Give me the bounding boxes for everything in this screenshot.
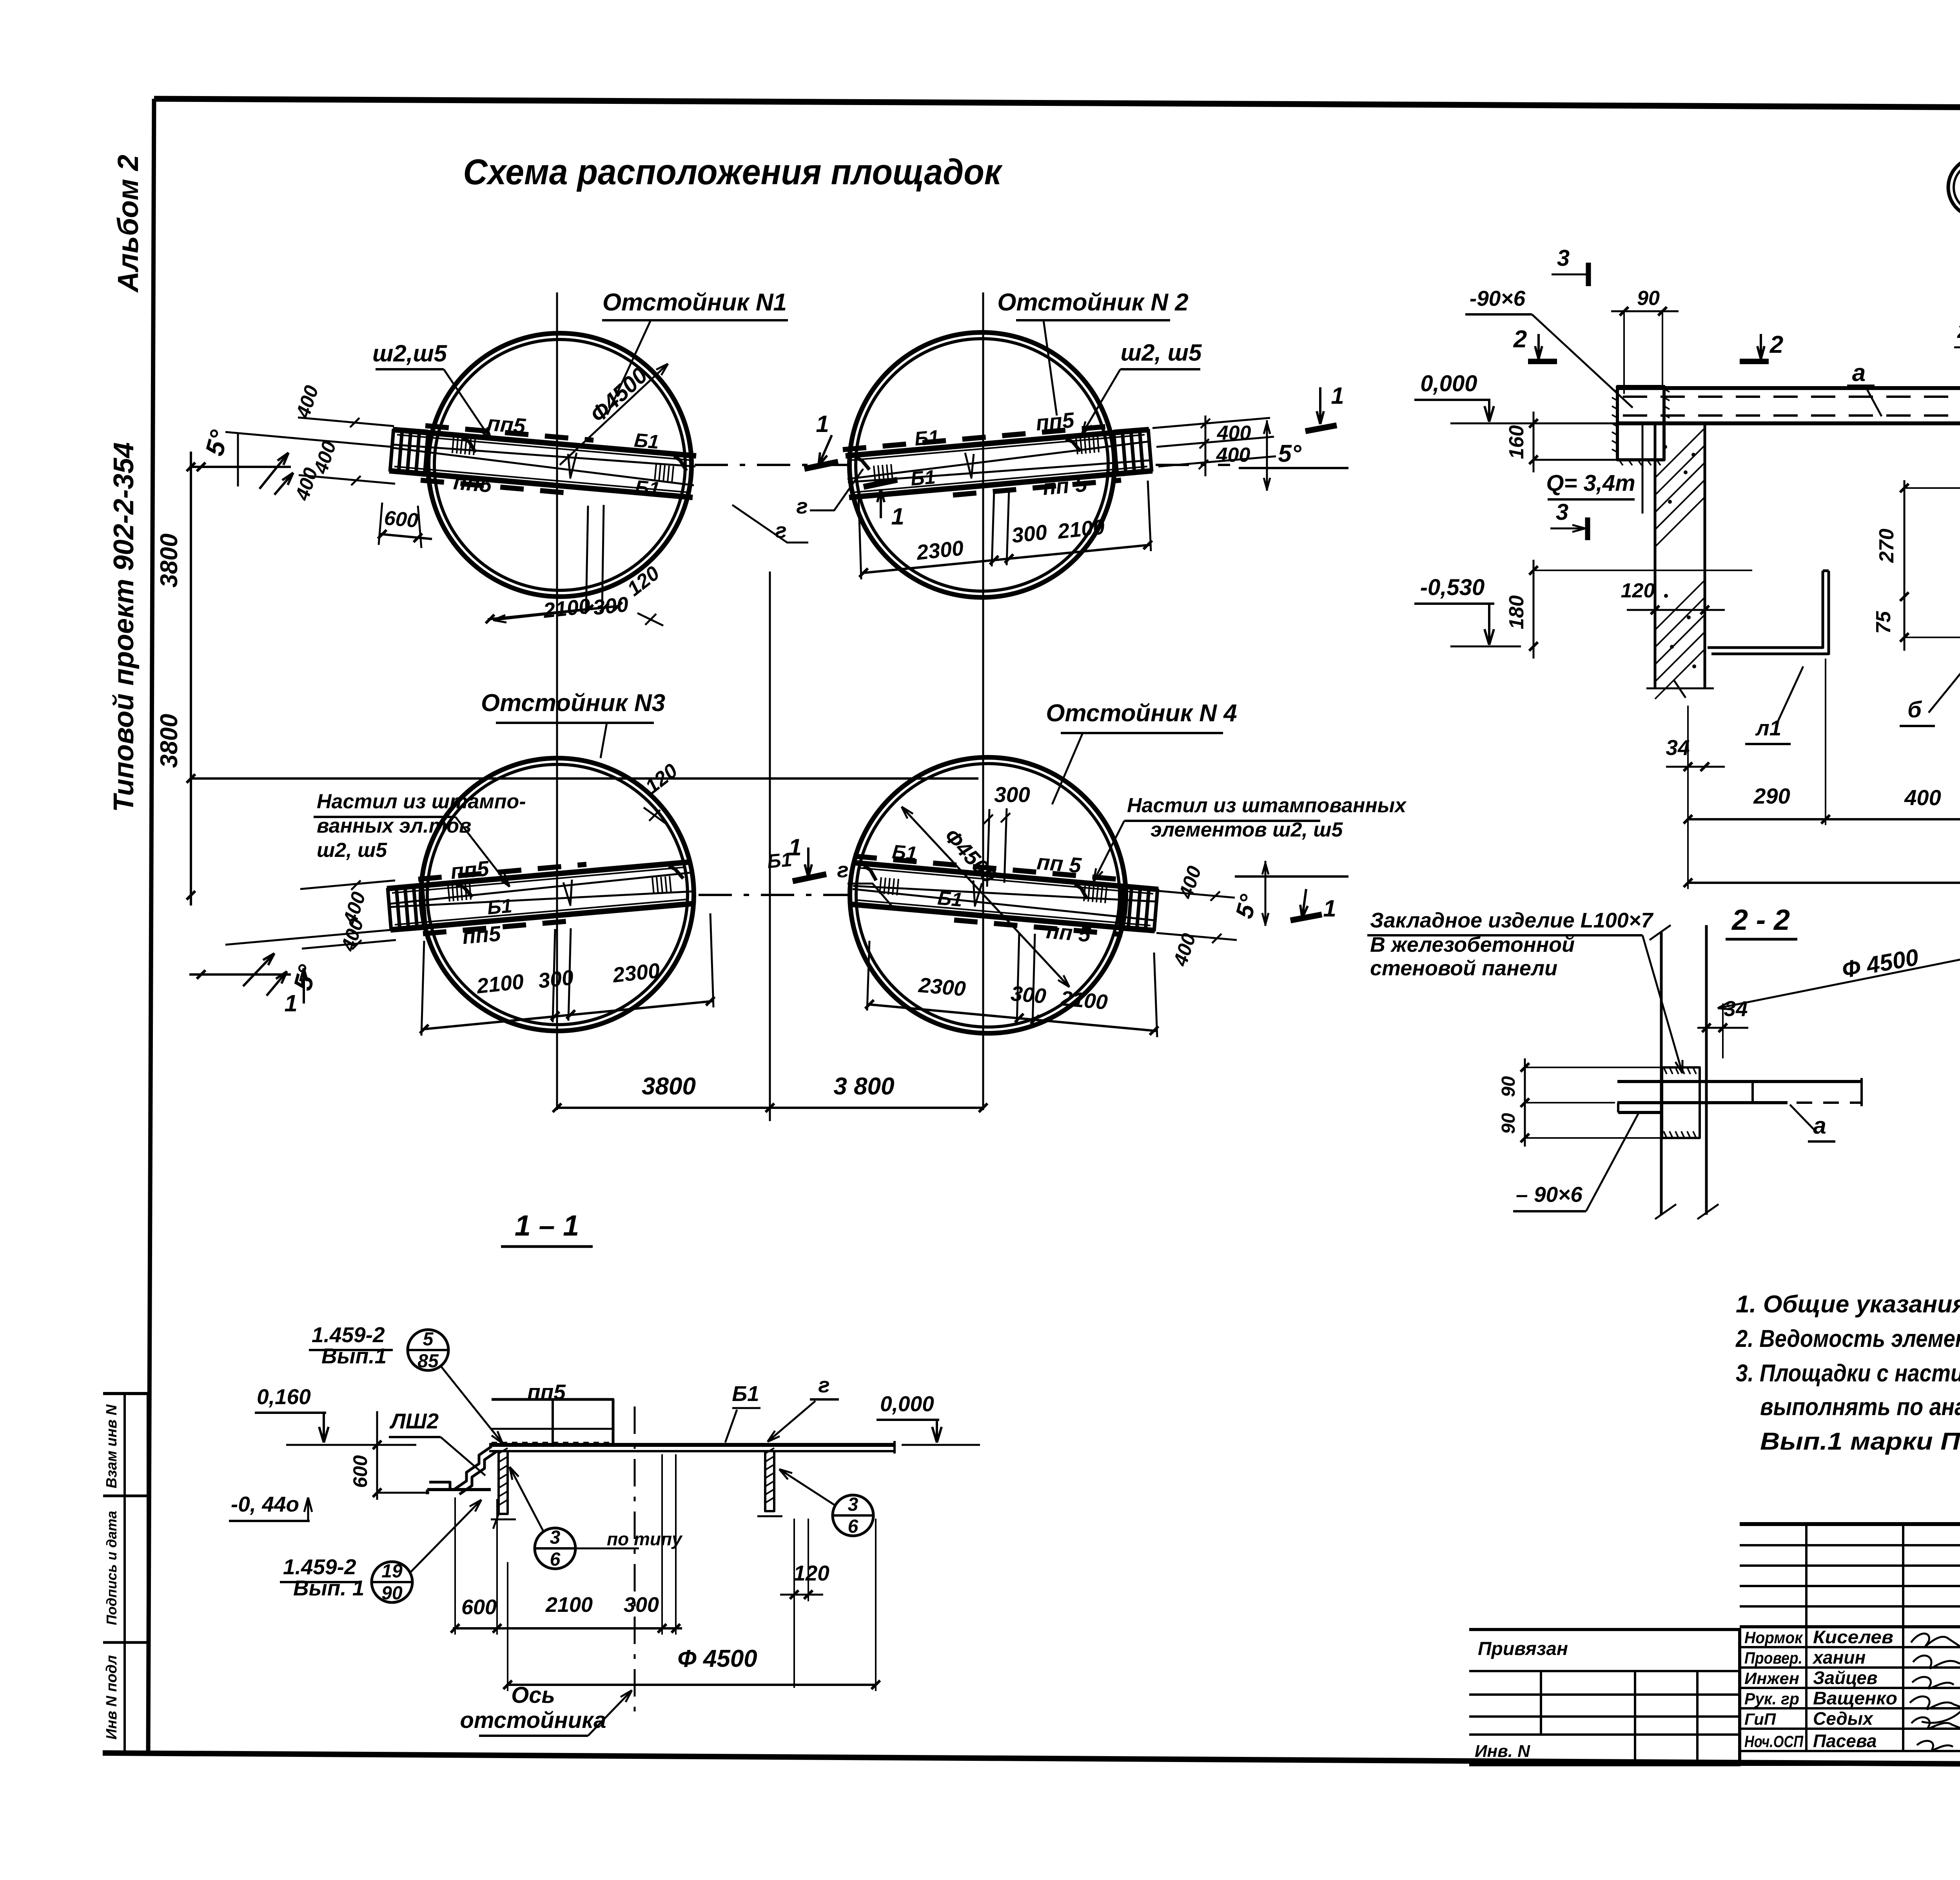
- svg-text:Взам инв N: Взам инв N: [103, 1404, 120, 1488]
- svg-text:-0, 44о: -0, 44о: [231, 1492, 299, 1516]
- svg-text:Схема расположения площадок: Схема расположения площадок: [463, 152, 1003, 192]
- svg-text:0,160: 0,160: [257, 1385, 311, 1409]
- svg-text:2100: 2100: [545, 1593, 593, 1617]
- svg-text:ш2, ш5: ш2, ш5: [1121, 339, 1202, 366]
- svg-text:1: 1: [1323, 895, 1336, 922]
- node 1 dim diameter 4500: [1688, 882, 1960, 884]
- svg-text:2300: 2300: [915, 536, 965, 564]
- svg-text:стеновой панели: стеновой панели: [1370, 956, 1557, 980]
- svg-text:Инв. N: Инв. N: [1475, 1742, 1530, 1761]
- section 1-1 deck: [489, 1443, 895, 1447]
- svg-text:ш2,ш5: ш2,ш5: [372, 340, 448, 367]
- tank 1 diameter 4500 arrow: [560, 364, 668, 465]
- svg-text:Ф 4500: Ф 4500: [677, 1645, 757, 1672]
- svg-text:300: 300: [994, 782, 1030, 807]
- svg-text:75: 75: [1872, 611, 1895, 634]
- svg-text:1. Общие указания смотрите: 1. Общие указания смотрите на листе КМ-1: [1736, 1291, 1960, 1318]
- svg-text:3800: 3800: [156, 714, 183, 768]
- node 1 wall concrete dots: [1663, 445, 1667, 449]
- svg-text:2 - 2: 2 - 2: [1731, 904, 1790, 936]
- svg-text:Б1: Б1: [634, 476, 661, 500]
- node 1 L element l1: [1708, 571, 1823, 648]
- svg-text:270: 270: [1875, 529, 1898, 563]
- section 1-1 bubble 3/6 right: [833, 1495, 873, 1536]
- svg-text:2100: 2100: [1059, 987, 1109, 1014]
- svg-text:2100: 2100: [475, 970, 525, 998]
- svg-text:Вып.1 марки ПШ29: Вып.1 марки ПШ29: [1760, 1428, 1960, 1455]
- svg-text:3. Площадки с настилом из: 3. Площадки с настилом из штампованных э…: [1736, 1360, 1960, 1387]
- section 1-1 axis line: [634, 1406, 636, 1721]
- svg-text:Настил из штампо-: Настил из штампо-: [317, 790, 526, 813]
- row divider line: [191, 777, 978, 780]
- section 1-1 pp5 box: [492, 1399, 613, 1445]
- svg-text:400: 400: [1216, 444, 1250, 466]
- tank 4 dim 2300 300 2100: [867, 1004, 1156, 1031]
- svg-text:290: 290: [1753, 784, 1790, 808]
- node 1 bottom dims 290 400 150 1410: [1688, 818, 1960, 820]
- svg-text:пп 5: пп 5: [1045, 918, 1092, 947]
- svg-text:Б1: Б1: [910, 466, 936, 490]
- svg-text:1: 1: [816, 411, 829, 437]
- svg-text:Отстойник N3: Отстойник N3: [481, 690, 665, 717]
- svg-text:3: 3: [1556, 499, 1568, 525]
- svg-text:160: 160: [1505, 425, 1528, 459]
- svg-text:пп5: пп5: [450, 856, 490, 884]
- svg-text:90: 90: [381, 1583, 403, 1604]
- svg-text:90: 90: [1498, 1076, 1519, 1097]
- section mark 1 right of tank 4: [1290, 915, 1322, 920]
- svg-text:5°: 5°: [1278, 440, 1301, 467]
- section 1-1 dim 600 vertical: [376, 1411, 378, 1500]
- svg-text:1.459-2: 1.459-2: [312, 1323, 385, 1347]
- svg-text:3 800: 3 800: [833, 1073, 894, 1100]
- svg-text:Киселев: Киселев: [1813, 1627, 1893, 1647]
- row 1 right slope marks 400 400 5deg: [1152, 418, 1270, 428]
- node 1 dim 270: [1904, 480, 1906, 612]
- row 1 axis dash-dot right of tank 2: [1156, 464, 1230, 466]
- svg-text:2100: 2100: [542, 594, 592, 622]
- svg-text:Б1: Б1: [914, 426, 940, 450]
- svg-text:Ось: Ось: [511, 1682, 555, 1708]
- tank 2 plan view circle: [849, 332, 1114, 597]
- svg-text:Вып.1: Вып.1: [321, 1344, 387, 1368]
- node 1 beam element a: [1617, 386, 1960, 390]
- svg-text:400: 400: [1217, 422, 1251, 445]
- section 2-2 wall: [1660, 932, 1663, 1215]
- svg-text:85: 85: [417, 1351, 439, 1372]
- svg-text:Ващенко: Ващенко: [1813, 1688, 1897, 1708]
- svg-text:отстойника: отстойника: [460, 1708, 606, 1733]
- section 2-2 dim diameter 4500 slanted: [1718, 952, 1960, 1008]
- svg-text:3: 3: [848, 1494, 858, 1515]
- row 1 axis left segment: [189, 466, 291, 468]
- centerline between columns: [769, 572, 771, 1110]
- node 1 section mark 2 right: [1740, 359, 1769, 364]
- svg-text:3: 3: [1557, 245, 1570, 271]
- svg-text:300: 300: [1010, 982, 1047, 1008]
- svg-text:Настил из штампованных: Настил из штампованных: [1127, 794, 1407, 817]
- svg-text:90: 90: [1498, 1113, 1519, 1134]
- svg-text:выполнять по аналогии с пл: выполнять по аналогии с площадками серии…: [1760, 1394, 1960, 1421]
- svg-text:2100: 2100: [1056, 515, 1106, 543]
- svg-text:Б1: Б1: [633, 429, 660, 453]
- svg-text:Типовой проект 902-2-354: Типовой проект 902-2-354: [108, 442, 140, 812]
- node 1 dim 160: [1533, 412, 1535, 472]
- svg-text:3800: 3800: [156, 534, 183, 588]
- tank centerline column 1: [556, 292, 558, 1110]
- section 1-1 dim diameter 4500: [508, 1684, 876, 1686]
- svg-text:Q= 3,4т: Q= 3,4т: [1546, 470, 1635, 496]
- svg-text:пп 5: пп 5: [1042, 472, 1088, 500]
- svg-text:180: 180: [1505, 595, 1528, 630]
- row 2 axis dash-dot between tanks: [699, 894, 848, 896]
- svg-text:600: 600: [461, 1595, 497, 1619]
- svg-text:пп5: пп5: [527, 1380, 566, 1404]
- tank 4 plan view circle: [850, 757, 1126, 1033]
- svg-text:5: 5: [423, 1329, 434, 1350]
- svg-text:Отстойник N1: Отстойник N1: [603, 289, 787, 316]
- section 2-2 platform plate: [1617, 1080, 1862, 1083]
- svg-text:пп5: пп5: [486, 411, 527, 438]
- svg-text:Седых: Седых: [1813, 1708, 1874, 1729]
- section mark 1 top right of tank 2: [1319, 387, 1321, 424]
- section 2-2 dim 90 90: [1524, 1058, 1526, 1147]
- svg-text:Рук. гр: Рук. гр: [1744, 1689, 1799, 1708]
- node 1 bubble: [1948, 158, 1960, 217]
- svg-text:Б1: Б1: [891, 840, 918, 864]
- section 2-2 embedded plate: [1662, 1067, 1700, 1138]
- svg-text:300: 300: [1011, 521, 1048, 548]
- svg-text:л1: л1: [1755, 716, 1782, 740]
- svg-text:пп5: пп5: [1035, 408, 1076, 435]
- svg-text:Б1: Б1: [486, 895, 513, 918]
- node 1 left bracket: [1617, 387, 1664, 460]
- section 1-1 stair LSh2: [454, 1446, 492, 1490]
- title block upper grid: [1740, 1544, 1960, 1546]
- section 1-1 right hatched post: [765, 1451, 774, 1511]
- svg-text:Ноч.ОСП: Ноч.ОСП: [1744, 1732, 1804, 1751]
- svg-text:a: a: [1813, 1112, 1826, 1139]
- svg-text:Закладное изделие L100×7: Закладное изделие L100×7: [1370, 909, 1654, 932]
- svg-text:6: 6: [550, 1549, 561, 1570]
- svg-text:0,000: 0,000: [1420, 371, 1477, 396]
- svg-text:-90×6: -90×6: [1470, 286, 1526, 310]
- row 1 axis dash-dot between tanks: [695, 464, 850, 466]
- svg-text:Б1: Б1: [937, 887, 964, 911]
- tank 1 dim 2100 300: [488, 606, 619, 619]
- tank 2 dim 2300 300 2100: [861, 545, 1150, 573]
- svg-text:2300: 2300: [611, 959, 661, 987]
- svg-text:ГиП: ГиП: [1744, 1710, 1776, 1728]
- svg-text:Инжен: Инжен: [1744, 1669, 1799, 1688]
- svg-text:2300: 2300: [917, 973, 967, 1001]
- svg-text:1 – 1: 1 – 1: [515, 1209, 579, 1242]
- title block outer: [1740, 1524, 1960, 1764]
- svg-text:1: 1: [1331, 383, 1344, 409]
- svg-text:a: a: [1852, 359, 1866, 387]
- section 2-2 bottom plate -90x6: [1618, 1102, 1664, 1104]
- vertical dimension line 3800x2: [190, 452, 192, 906]
- svg-text:Б1: Б1: [732, 1381, 759, 1406]
- privyazan table: [1469, 1630, 1740, 1765]
- svg-text:ЛШ2: ЛШ2: [389, 1409, 439, 1433]
- svg-text:600: 600: [383, 506, 419, 532]
- svg-text:120: 120: [793, 1561, 829, 1585]
- svg-text:ш2, ш5: ш2, ш5: [317, 839, 387, 862]
- left margin stamp boxes: [103, 1394, 148, 1753]
- svg-text:г: г: [818, 1373, 829, 1397]
- svg-text:2: 2: [1769, 331, 1783, 358]
- node 1 concrete wall: [1654, 422, 1657, 688]
- tank 4 diameter 4500 diagonal: [902, 807, 1069, 987]
- svg-text:Пасева: Пасева: [1813, 1731, 1877, 1751]
- svg-text:300: 300: [624, 1593, 659, 1617]
- section 1-1 dims 600 2100 300: [453, 1627, 682, 1630]
- svg-text:Подпись и дата: Подпись и дата: [103, 1511, 120, 1625]
- svg-text:г: г: [837, 858, 848, 882]
- svg-text:Отстойник N 4: Отстойник N 4: [1046, 700, 1237, 727]
- svg-text:б: б: [1907, 697, 1922, 722]
- svg-text:400: 400: [1904, 785, 1941, 810]
- svg-text:пп5: пп5: [461, 921, 502, 949]
- tank 1 dim 600: [379, 534, 432, 539]
- svg-text:1.459-2: 1.459-2: [283, 1555, 356, 1579]
- tank 1 plan view circle: [428, 333, 691, 597]
- svg-text:г: г: [796, 494, 808, 518]
- svg-text:1: 1: [284, 990, 297, 1016]
- svg-text:пп5: пп5: [452, 470, 493, 497]
- svg-text:25: 25: [1957, 320, 1960, 343]
- svg-text:Отстойник N 2: Отстойник N 2: [997, 289, 1189, 316]
- section 1-1 bubble 3/6 left: [535, 1528, 575, 1569]
- svg-text:1: 1: [788, 834, 801, 860]
- bottom dimension line 3800 3800: [557, 1107, 983, 1109]
- svg-text:Зайцев: Зайцев: [1813, 1668, 1878, 1688]
- node 1 wall bottom break: [1646, 688, 1714, 690]
- svg-text:Инв N подл: Инв N подл: [103, 1655, 120, 1739]
- svg-text:2. Ведомость элементов смотри: 2. Ведомость элементов смотрите на листе…: [1735, 1325, 1960, 1352]
- svg-text:1: 1: [891, 503, 904, 530]
- svg-text:600: 600: [349, 1455, 371, 1488]
- svg-text:ханин: ханин: [1812, 1647, 1866, 1668]
- tank centerline column 2: [982, 292, 984, 1110]
- svg-text:19: 19: [381, 1561, 403, 1582]
- svg-text:-0,530: -0,530: [1420, 575, 1485, 600]
- svg-text:пп 5: пп 5: [1036, 849, 1083, 878]
- svg-text:6: 6: [848, 1516, 858, 1537]
- svg-text:3: 3: [550, 1527, 561, 1548]
- svg-text:Провер.: Провер.: [1744, 1649, 1802, 1667]
- svg-text:Альбом 2: Альбом 2: [112, 155, 144, 293]
- row 2 right slope marks 400 400 5deg: [1155, 891, 1235, 898]
- svg-text:34: 34: [1666, 735, 1690, 760]
- svg-text:90: 90: [1637, 287, 1660, 310]
- svg-text:Привязан: Привязан: [1478, 1639, 1568, 1659]
- section mark 1 right of tank 1 lower: [864, 480, 897, 487]
- svg-text:3800: 3800: [642, 1073, 696, 1100]
- sheet frame bottom border: [103, 1753, 1960, 1767]
- svg-text:– 90×6: – 90×6: [1516, 1182, 1583, 1207]
- svg-text:по типу: по типу: [607, 1529, 683, 1549]
- title block staff rows: [1740, 1646, 1960, 1648]
- svg-text:Нормок: Нормок: [1744, 1628, 1803, 1647]
- staff signatures: [1910, 1633, 1960, 1750]
- svg-text:0,000: 0,000: [880, 1392, 934, 1416]
- tank 3 plan view circle: [421, 758, 694, 1031]
- svg-text:Вып. 1: Вып. 1: [293, 1576, 364, 1600]
- svg-text:2: 2: [1513, 326, 1527, 353]
- sheet frame left border: [148, 99, 154, 1753]
- sheet frame top border: [154, 99, 1960, 110]
- node 1 dim 180: [1533, 560, 1535, 659]
- tank 3 dim 2100 300 2300: [421, 1001, 713, 1029]
- svg-text:120: 120: [1621, 579, 1655, 602]
- section 1-1 left hatched post: [499, 1451, 508, 1514]
